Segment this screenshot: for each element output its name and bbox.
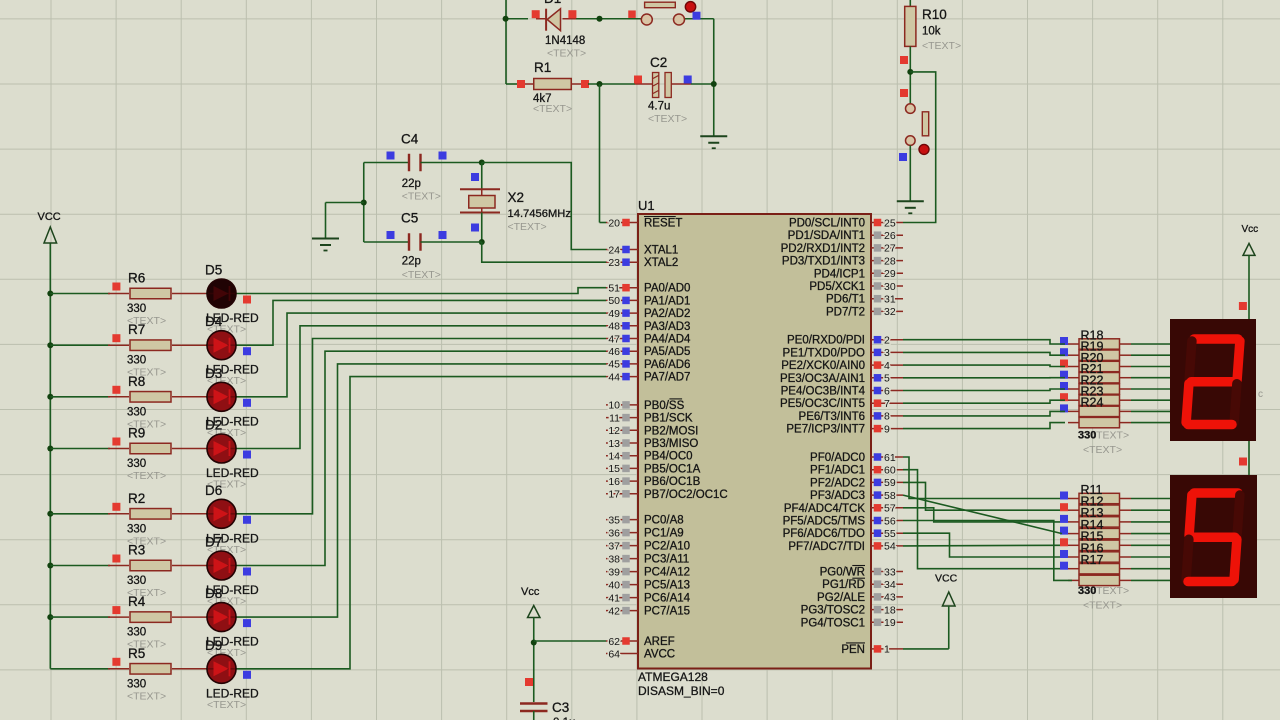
svg-text:ATMEGA128: ATMEGA128 <box>638 670 708 684</box>
svg-text:<TEXT>: <TEXT> <box>127 690 166 702</box>
svg-text:PC6/A14: PC6/A14 <box>644 593 691 605</box>
svg-text:PEN: PEN <box>841 644 865 656</box>
svg-text:27: 27 <box>884 243 896 255</box>
svg-text:43: 43 <box>884 592 896 604</box>
svg-text:D2: D2 <box>205 418 222 433</box>
svg-text:R24: R24 <box>1081 396 1104 410</box>
svg-text:PD6/T1: PD6/T1 <box>826 294 865 306</box>
svg-text:5: 5 <box>884 373 890 385</box>
svg-text:PE2/XCK0/AIN0: PE2/XCK0/AIN0 <box>781 360 865 372</box>
svg-text:2: 2 <box>884 335 890 347</box>
svg-text:PB5/OC1A: PB5/OC1A <box>644 463 701 475</box>
svg-text:D7: D7 <box>205 535 222 550</box>
svg-text:PC2/A10: PC2/A10 <box>644 541 690 553</box>
svg-text:59: 59 <box>884 477 896 489</box>
svg-text:PB6/OC1B: PB6/OC1B <box>644 476 701 488</box>
svg-text:C3: C3 <box>552 700 569 715</box>
svg-text:D6: D6 <box>205 483 222 498</box>
svg-text:58: 58 <box>884 490 896 502</box>
svg-text:22p: 22p <box>402 256 421 268</box>
svg-text:AVCC: AVCC <box>644 649 675 661</box>
svg-text:PB3/MISO: PB3/MISO <box>644 438 698 450</box>
svg-text:PG4/TOSC1: PG4/TOSC1 <box>801 617 865 629</box>
svg-text:330: 330 <box>127 678 146 690</box>
svg-text:D8: D8 <box>205 586 222 601</box>
svg-text:51: 51 <box>608 283 620 295</box>
svg-text:330: 330 <box>127 627 146 639</box>
svg-text:PF3/ADC3: PF3/ADC3 <box>810 490 865 502</box>
svg-text:RESET: RESET <box>644 218 682 230</box>
svg-text:PA7/AD7: PA7/AD7 <box>644 372 690 384</box>
svg-text:42: 42 <box>608 605 620 617</box>
svg-text:C2: C2 <box>650 55 667 70</box>
svg-text:37: 37 <box>608 540 620 552</box>
svg-text:PD5/XCK1: PD5/XCK1 <box>809 281 865 293</box>
svg-text:31: 31 <box>884 294 896 306</box>
svg-text:56: 56 <box>884 515 896 527</box>
svg-text:14.7456MHz: 14.7456MHz <box>508 208 572 220</box>
svg-text:PB0/SS: PB0/SS <box>644 400 685 412</box>
svg-text:PF0/ADC0: PF0/ADC0 <box>810 452 865 464</box>
svg-text:45: 45 <box>608 359 620 371</box>
svg-text:R4: R4 <box>128 594 146 609</box>
svg-text:17: 17 <box>608 489 620 501</box>
svg-text:PA4/AD4: PA4/AD4 <box>644 334 691 346</box>
svg-text:16: 16 <box>608 476 620 488</box>
svg-text:60: 60 <box>884 465 896 477</box>
svg-text:PC7/A15: PC7/A15 <box>644 606 690 618</box>
svg-text:PF6/ADC6/TDO: PF6/ADC6/TDO <box>783 528 865 540</box>
svg-text:R10: R10 <box>922 7 947 22</box>
svg-text:c: c <box>1258 389 1263 400</box>
svg-text:38: 38 <box>608 553 620 565</box>
svg-text:PE1/TXD0/PDO: PE1/TXD0/PDO <box>783 347 865 359</box>
svg-text:19: 19 <box>884 617 896 629</box>
svg-text:330: 330 <box>1078 585 1096 597</box>
svg-text:C5: C5 <box>401 211 418 226</box>
svg-text:XTAL2: XTAL2 <box>644 257 678 269</box>
svg-text:PF1/ADC1: PF1/ADC1 <box>810 465 865 477</box>
svg-text:PC5/A13: PC5/A13 <box>644 580 690 592</box>
svg-text:20: 20 <box>608 217 620 229</box>
svg-text:6: 6 <box>884 385 890 397</box>
svg-text:9: 9 <box>884 423 890 435</box>
svg-text:Vcc: Vcc <box>1242 224 1259 235</box>
svg-text:10k: 10k <box>922 26 941 38</box>
svg-text:26: 26 <box>884 230 896 242</box>
svg-text:330: 330 <box>127 355 146 367</box>
svg-text:40: 40 <box>608 579 620 591</box>
svg-text:PF5/ADC5/TMS: PF5/ADC5/TMS <box>783 516 866 528</box>
svg-text:R7: R7 <box>128 322 145 337</box>
svg-text:28: 28 <box>884 255 896 267</box>
svg-text:4: 4 <box>884 360 890 372</box>
svg-text:PE3/OC3A/AIN1: PE3/OC3A/AIN1 <box>780 373 865 385</box>
svg-text:PE7/ICP3/INT7: PE7/ICP3/INT7 <box>786 424 865 436</box>
svg-text:330: 330 <box>127 523 146 535</box>
svg-text:PA1/AD1: PA1/AD1 <box>644 295 690 307</box>
svg-text:36: 36 <box>608 527 620 539</box>
svg-text:R6: R6 <box>128 271 145 286</box>
svg-text:R1: R1 <box>534 60 551 75</box>
svg-text:330: 330 <box>1078 430 1096 442</box>
svg-text:14: 14 <box>608 451 620 463</box>
svg-text:PA5/AD5: PA5/AD5 <box>644 346 690 358</box>
svg-text:PC4/A12: PC4/A12 <box>644 567 690 579</box>
svg-text:61: 61 <box>884 452 896 464</box>
svg-text:PG2/ALE: PG2/ALE <box>817 592 865 604</box>
svg-text:1N4148: 1N4148 <box>545 35 585 47</box>
svg-text:D1: D1 <box>544 0 561 6</box>
svg-text:PD0/SCL/INT0: PD0/SCL/INT0 <box>789 218 865 230</box>
svg-text:PD1/SDA/INT1: PD1/SDA/INT1 <box>788 230 865 242</box>
svg-text:D3: D3 <box>205 366 222 381</box>
svg-text:<TEXT>: <TEXT> <box>648 113 687 125</box>
svg-text:330: 330 <box>127 406 146 418</box>
svg-text:PA6/AD6: PA6/AD6 <box>644 359 690 371</box>
svg-text:330: 330 <box>127 458 146 470</box>
svg-text:24: 24 <box>608 244 620 256</box>
svg-text:PB2/MOSI: PB2/MOSI <box>644 425 698 437</box>
svg-text:PG1/RD: PG1/RD <box>822 579 865 591</box>
svg-text:<TEXT>: <TEXT> <box>508 221 547 233</box>
svg-text:7: 7 <box>884 398 890 410</box>
svg-text:12: 12 <box>608 425 620 437</box>
svg-text:PC0/A8: PC0/A8 <box>644 515 684 527</box>
svg-text:48: 48 <box>608 321 620 333</box>
svg-text:<TEXT>: <TEXT> <box>402 269 441 281</box>
svg-text:330: 330 <box>127 575 146 587</box>
svg-text:PB1/SCK: PB1/SCK <box>644 413 693 425</box>
svg-text:22p: 22p <box>402 178 421 190</box>
svg-text:XTAL1: XTAL1 <box>644 245 678 257</box>
svg-text:PC3/A11: PC3/A11 <box>644 554 689 566</box>
svg-text:R8: R8 <box>128 374 145 389</box>
svg-text:R17: R17 <box>1081 553 1104 567</box>
svg-text:PG3/TOSC2: PG3/TOSC2 <box>801 605 865 617</box>
svg-text:PF4/ADC4/TCK: PF4/ADC4/TCK <box>784 503 865 515</box>
svg-text:D4: D4 <box>205 314 223 329</box>
svg-text:PF2/ADC2: PF2/ADC2 <box>810 477 865 489</box>
svg-text:D9: D9 <box>205 638 222 653</box>
svg-text:PE5/OC3C/INT5: PE5/OC3C/INT5 <box>780 398 865 410</box>
svg-text:62: 62 <box>608 636 620 648</box>
svg-text:33: 33 <box>884 566 896 578</box>
svg-text:PC1/A9: PC1/A9 <box>644 528 684 540</box>
svg-text:54: 54 <box>884 541 896 553</box>
svg-text:PA0/AD0: PA0/AD0 <box>644 283 690 295</box>
svg-text:13: 13 <box>608 438 620 450</box>
svg-text:PD7/T2: PD7/T2 <box>826 306 865 318</box>
svg-text:PE6/T3/INT6: PE6/T3/INT6 <box>799 411 865 423</box>
svg-text:<TEXT>: <TEXT> <box>127 470 166 482</box>
svg-text:<TEXT>: <TEXT> <box>547 48 586 60</box>
svg-text:32: 32 <box>884 306 896 318</box>
svg-text:3: 3 <box>884 347 890 359</box>
svg-text:R3: R3 <box>128 543 145 558</box>
svg-text:PA2/AD2: PA2/AD2 <box>644 308 690 320</box>
svg-text:PB4/OC0: PB4/OC0 <box>644 451 693 463</box>
svg-text:PA3/AD3: PA3/AD3 <box>644 321 690 333</box>
svg-text:25: 25 <box>884 217 896 229</box>
svg-text:<TEXT>: <TEXT> <box>533 103 572 115</box>
svg-text:64: 64 <box>608 648 620 660</box>
svg-text:55: 55 <box>884 528 896 540</box>
svg-text:C4: C4 <box>401 132 419 147</box>
svg-text:<TEXT>: <TEXT> <box>207 699 246 711</box>
svg-text:18: 18 <box>884 604 896 616</box>
svg-text:41: 41 <box>608 592 620 604</box>
svg-text:PE0/RXD0/PDI: PE0/RXD0/PDI <box>787 335 865 347</box>
svg-text:PG0/WR: PG0/WR <box>820 567 865 579</box>
svg-text:35: 35 <box>608 514 620 526</box>
svg-text:57: 57 <box>884 503 896 515</box>
svg-text:15: 15 <box>608 463 620 475</box>
svg-text:8: 8 <box>884 411 890 423</box>
svg-text:<TEXT>: <TEXT> <box>922 40 961 52</box>
svg-text:34: 34 <box>884 579 896 591</box>
svg-text:Vcc: Vcc <box>521 586 540 598</box>
svg-text:VCC: VCC <box>935 573 958 585</box>
svg-text:R5: R5 <box>128 646 145 661</box>
svg-text:50: 50 <box>608 295 620 307</box>
svg-text:47: 47 <box>608 333 620 345</box>
svg-text:PB7/OC2/OC1C: PB7/OC2/OC1C <box>644 489 728 501</box>
svg-text:PF7/ADC7/TDI: PF7/ADC7/TDI <box>788 541 865 553</box>
svg-text:PD2/RXD1/INT2: PD2/RXD1/INT2 <box>781 243 865 255</box>
svg-text:R2: R2 <box>128 491 145 506</box>
svg-text:11: 11 <box>609 412 620 424</box>
svg-text:39: 39 <box>608 566 620 578</box>
svg-text:X2: X2 <box>508 190 525 205</box>
svg-text:10: 10 <box>608 400 620 412</box>
svg-text:<TEXT>: <TEXT> <box>1083 600 1122 612</box>
svg-text:1: 1 <box>884 644 890 656</box>
svg-text:PD3/TXD1/INT3: PD3/TXD1/INT3 <box>782 256 865 268</box>
svg-text:4.7u: 4.7u <box>648 101 670 113</box>
svg-text:46: 46 <box>608 346 620 358</box>
svg-text:<TEXT>: <TEXT> <box>402 191 441 203</box>
svg-text:29: 29 <box>884 268 896 280</box>
svg-text:23: 23 <box>608 257 620 269</box>
svg-text:44: 44 <box>608 371 620 383</box>
svg-text:330: 330 <box>127 303 146 315</box>
svg-text:D5: D5 <box>205 263 222 278</box>
svg-text:PD4/ICP1: PD4/ICP1 <box>814 268 865 280</box>
svg-text:<TEXT>: <TEXT> <box>1083 444 1122 456</box>
svg-text:VCC: VCC <box>38 211 61 223</box>
svg-text:R9: R9 <box>128 426 145 441</box>
svg-text:PE4/OC3B/INT4: PE4/OC3B/INT4 <box>781 386 866 398</box>
svg-text:AREF: AREF <box>644 636 675 648</box>
svg-text:49: 49 <box>608 308 620 320</box>
svg-text:30: 30 <box>884 281 896 293</box>
svg-text:DISASM_BIN=0: DISASM_BIN=0 <box>638 684 725 698</box>
svg-text:U1: U1 <box>638 198 655 213</box>
